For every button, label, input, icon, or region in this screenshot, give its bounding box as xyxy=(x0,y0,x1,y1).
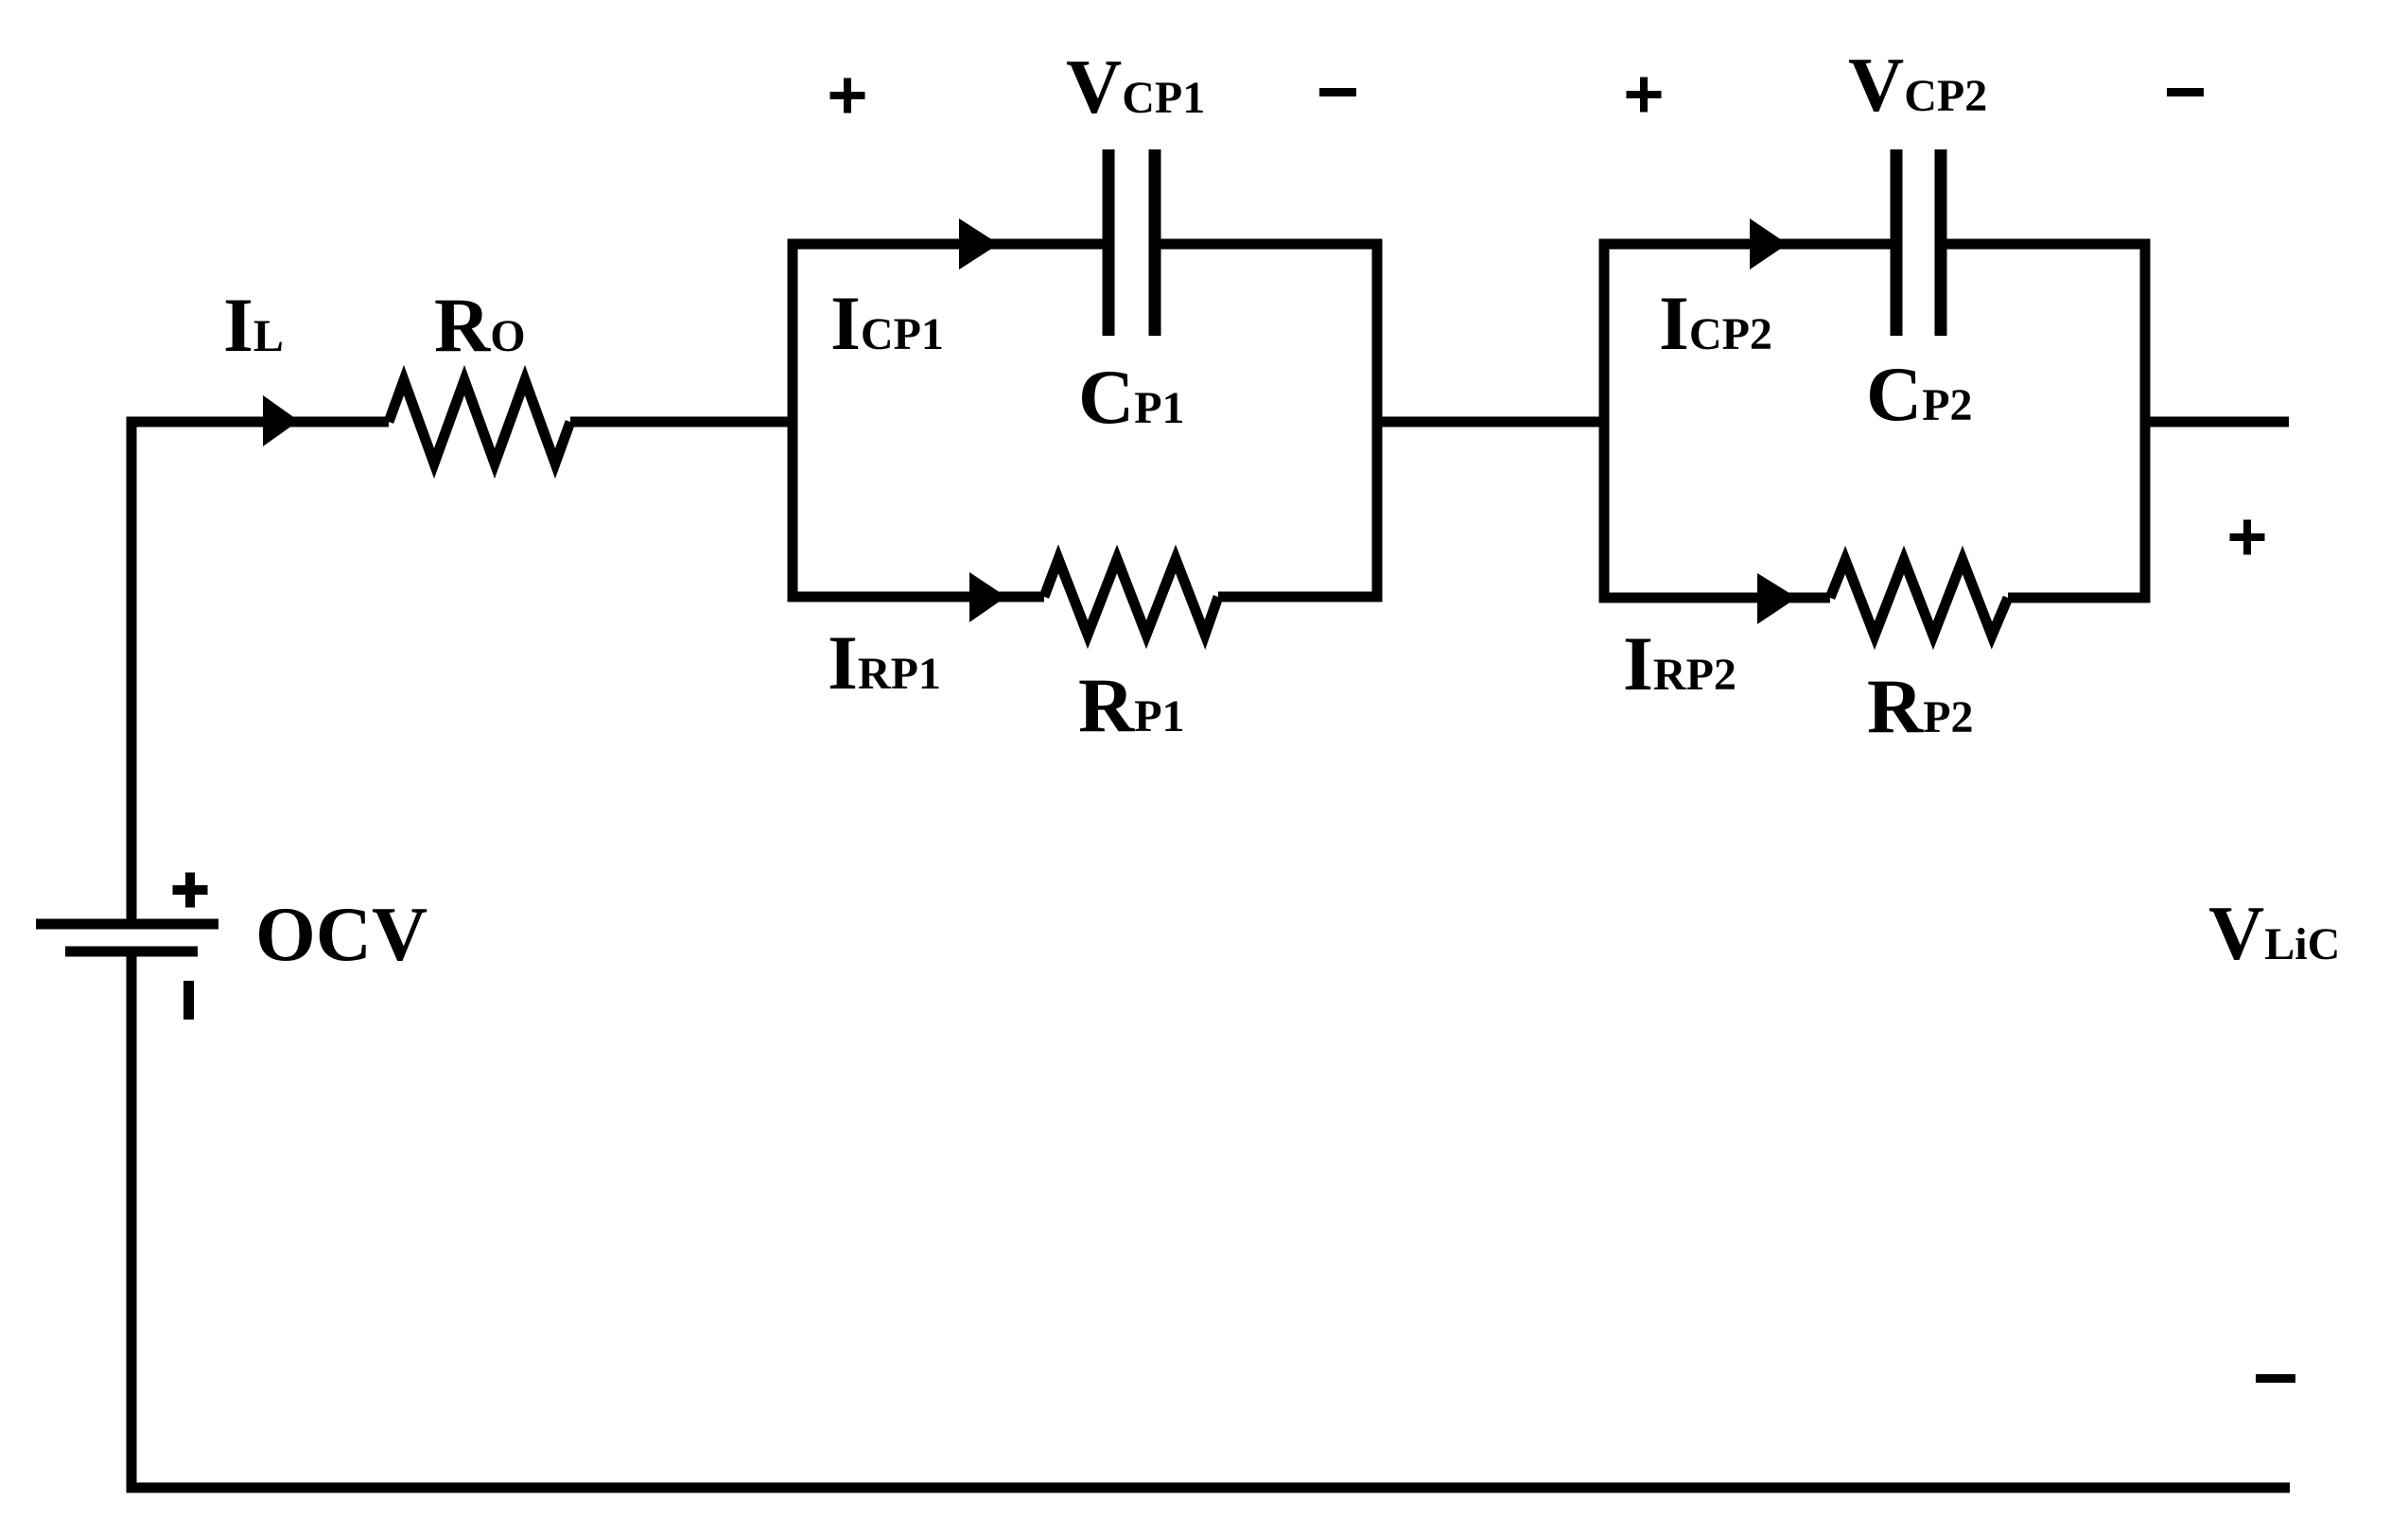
wire: left rail from main node down to battery + plate xyxy=(127,417,137,925)
wire: output wire to + terminal xyxy=(2140,417,2290,427)
wire: block2 top branch left segment to capacitor CP2 xyxy=(1599,239,1892,250)
wire: bottom return wire xyxy=(127,1483,2291,1493)
wire: block1 top branch right segment from capacitor CP1 xyxy=(1160,239,1383,250)
battery + mark xyxy=(173,873,208,908)
label - for VCP2 xyxy=(2167,88,2204,96)
wire: block2 right vertical xyxy=(2140,239,2151,603)
label - for VLiC output xyxy=(2256,1374,2295,1383)
resistor RP2 zigzag xyxy=(1830,560,2008,636)
arrow IRP1 on block1 bottom branch xyxy=(969,572,1006,622)
wire: middle link between block1 and block2 xyxy=(1372,417,1610,427)
label + for VCP1 xyxy=(830,78,865,113)
capacitor CP1 plates xyxy=(1108,149,1155,336)
battery - mark xyxy=(183,981,194,1020)
wire: block1 bottom branch left segment to resistor RP1 xyxy=(788,592,1045,602)
wire: block2 bottom branch left segment to resistor RP2 xyxy=(1599,593,1831,603)
capacitor CP2 plates xyxy=(1896,149,1941,336)
label + for VLiC output xyxy=(2230,520,2265,555)
wire: block1 bottom branch right segment xyxy=(1218,592,1383,602)
wire: block2 bottom branch right segment xyxy=(2008,593,2151,603)
wire: block1 top branch left segment to capacitor CP1 xyxy=(788,239,1104,250)
label + for VCP2 xyxy=(1627,78,1662,113)
resistor RO zigzag xyxy=(389,380,570,463)
arrow ICP2 on block2 top branch xyxy=(1750,218,1788,270)
wire: block2 top branch right segment from capacitor CP2 xyxy=(1946,239,2151,250)
arrow ICP1 on block1 top branch xyxy=(959,218,999,270)
arrow IL on main wire xyxy=(263,395,299,446)
battery OCV plates xyxy=(36,924,218,951)
arrow IRP2 on block2 bottom branch xyxy=(1757,573,1797,624)
wire: block1 left vertical xyxy=(788,239,798,602)
wire: RO to block1 left node xyxy=(570,417,798,427)
wire: block1 right vertical xyxy=(1372,239,1383,602)
wire: left rail from battery - plate down to bottom-left corner xyxy=(127,951,137,1493)
wire: block2 left vertical xyxy=(1599,239,1610,603)
wire: main wire from left rail to resistor RO xyxy=(127,417,390,427)
svg-text:OCV: OCV xyxy=(255,891,428,977)
label - for VCP1 xyxy=(1319,88,1356,96)
resistor RP1 zigzag xyxy=(1044,559,1218,635)
